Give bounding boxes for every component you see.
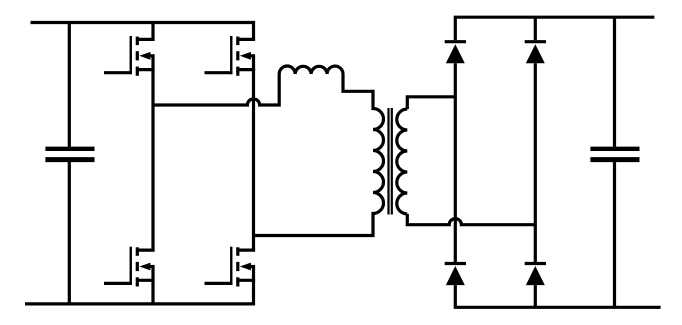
transistor Q3 (lower left MOSFET) <box>104 247 155 287</box>
transformer T1 primary winding <box>373 100 384 225</box>
wire: primary bottom to node B on leg2 <box>254 225 374 236</box>
transistor Q1 (upper left MOSFET) <box>104 36 155 76</box>
transformer T1 secondary winding <box>397 109 408 214</box>
wire: inductor to transformer primary <box>358 91 373 100</box>
inductor L1 <box>279 66 358 91</box>
transformer T1 core <box>387 108 389 215</box>
wire: top rail to input capacitor <box>68 23 71 147</box>
diode D1 (upper left) <box>445 42 466 64</box>
wire: top rail to output capacitor <box>613 17 616 147</box>
wire: leg3 middle, D1 anode to D3 cathode <box>454 63 457 262</box>
capacitor C2 (output) <box>590 149 639 160</box>
wire: leg4 bottom, D4 anode to rail <box>534 285 537 307</box>
transistor Q2 (upper right MOSFET) <box>205 36 256 76</box>
wire: secondary bottom to rectifier leg4, with hop over leg3 <box>407 214 535 225</box>
wire: output top rail with corner down to D1 cathode <box>455 17 654 40</box>
wire: Q3 source to bottom rail <box>151 267 154 304</box>
wire: output capacitor to bottom rail <box>613 162 616 307</box>
wire: output bottom rail with corner up to D3 anode <box>455 285 660 307</box>
wire: input top rail with corner down to Q2 drain <box>31 23 254 40</box>
wire: leg1 midpoint, Q1 source down to Q3 drain <box>151 56 154 250</box>
wire: input capacitor to bottom rail <box>68 162 71 304</box>
wire: node A to inductor, with hop over leg2 <box>153 89 279 105</box>
diode D3 (lower left) <box>445 264 466 286</box>
wire: secondary top to rectifier leg3 <box>407 97 455 109</box>
wire: leg4 middle, D2 anode to D4 cathode <box>534 63 537 262</box>
wire: input bottom rail with corner up to Q4 source <box>25 267 254 304</box>
diode D2 (upper right) <box>525 42 546 64</box>
wire: leg4 top, rail to D2 cathode <box>534 17 537 40</box>
capacitor C1 (input) <box>45 149 94 160</box>
wire: leg2 midpoint, Q2 source down to Q4 drain <box>252 56 255 250</box>
diode D4 (lower right) <box>525 264 546 286</box>
transistor Q4 (lower right MOSFET) <box>205 247 256 287</box>
wire: Q1 drain to top rail <box>151 23 154 40</box>
